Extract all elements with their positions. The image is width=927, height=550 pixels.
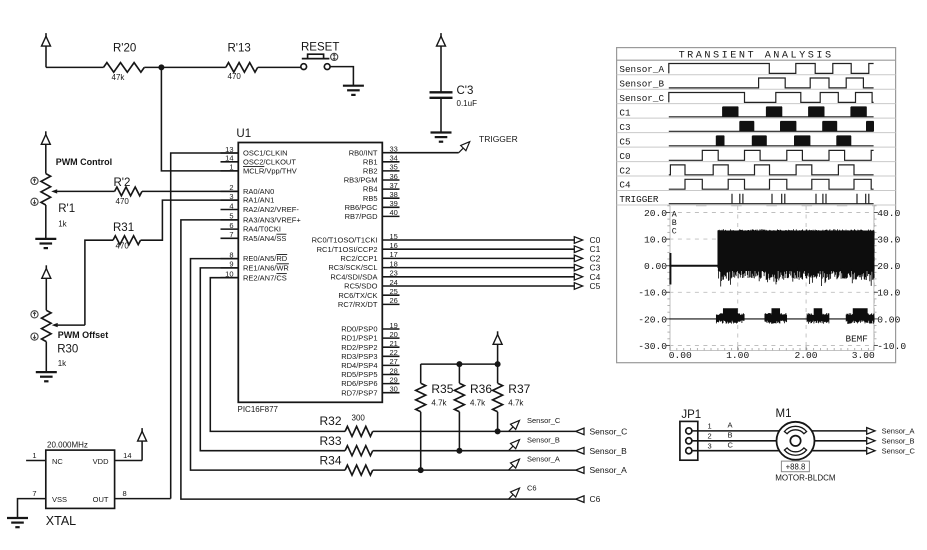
svg-text:RB0/INT: RB0/INT — [349, 148, 378, 157]
wire R30 wiper up to R31 — [85, 240, 113, 325]
pin 30 RD7/PSP7 — [382, 392, 399, 394]
power VCC arrow top-left — [45, 33, 47, 38]
pin 8 OUT wire — [115, 498, 171, 500]
svg-text:C6: C6 — [527, 484, 537, 493]
power VCC arrow above XTAL — [141, 428, 143, 433]
wire R30 to ground — [45, 342, 47, 373]
svg-text:C'3: C'3 — [457, 85, 474, 97]
svg-text:-10.0: -10.0 — [638, 288, 667, 299]
svg-text:U1: U1 — [236, 128, 251, 140]
power VCC arrow above C'3 — [440, 33, 442, 38]
resistor R'20 — [104, 63, 145, 73]
node terminal C3 — [574, 264, 582, 271]
svg-text:PWM Control: PWM Control — [56, 157, 112, 167]
pin 10 RE2/AN7/CS — [221, 277, 239, 279]
pin 39 RB6/PGC — [382, 206, 399, 208]
node terminal C5 — [574, 283, 582, 290]
transient analysis panel frame — [617, 48, 896, 363]
svg-text:RD4/PSP4: RD4/PSP4 — [341, 361, 377, 370]
svg-text:1: 1 — [229, 163, 233, 172]
svg-text:BEMF: BEMF — [846, 334, 868, 345]
svg-text:16: 16 — [390, 241, 398, 250]
svg-text:7: 7 — [32, 489, 36, 498]
pin 40 RB7/PGD — [382, 215, 399, 217]
motor M1 MOTOR-BLDCM — [777, 422, 815, 460]
potentiometer R'1 (PWM Control) — [41, 174, 51, 205]
pin 14 VDD wire to VCC — [115, 460, 143, 462]
resistor R37 — [497, 364, 499, 383]
terminal Sensor_A right side — [867, 428, 875, 435]
wire R32 to terminal Sensor_C — [373, 430, 576, 432]
trace TRIGGER waveform (spikes) — [669, 194, 874, 204]
analog noisy PWM band — [718, 231, 875, 272]
svg-text:RA4/T0CKI: RA4/T0CKI — [243, 225, 281, 234]
svg-text:R'1: R'1 — [58, 203, 75, 215]
wire RC4 to terminal C4 — [400, 276, 575, 278]
wire R'20 to R'13 — [144, 66, 226, 68]
svg-text:Sensor_B: Sensor_B — [619, 78, 664, 89]
pin 27 RD4/PSP4 — [382, 364, 399, 366]
svg-text:23: 23 — [390, 269, 398, 278]
svg-text:6: 6 — [229, 221, 233, 230]
overline CS — [276, 273, 286, 275]
svg-text:40.0: 40.0 — [877, 208, 900, 219]
svg-text:Sensor_A: Sensor_A — [619, 64, 664, 75]
svg-text:RC3/SCK/SCL: RC3/SCK/SCL — [328, 263, 377, 272]
wire RC3 to terminal C3 — [400, 267, 575, 269]
svg-text:14: 14 — [225, 154, 233, 163]
svg-text:10.0: 10.0 — [644, 235, 667, 246]
pin 26 RC7/RX/DT — [382, 303, 399, 305]
wire RC1 to terminal C1 — [400, 248, 575, 250]
svg-text:OSC2/CLKOUT: OSC2/CLKOUT — [243, 157, 296, 166]
svg-text:A: A — [728, 421, 733, 430]
analog axis frame and tick marks — [669, 206, 671, 351]
terminal Sensor_C left-pointing — [576, 428, 584, 435]
trace C1 waveform (pwm bursts) — [669, 116, 874, 118]
svg-text:10.0: 10.0 — [877, 288, 900, 299]
svg-text:22: 22 — [390, 348, 398, 357]
svg-text:Sensor_C: Sensor_C — [590, 427, 628, 437]
node MCLR junction — [158, 64, 164, 70]
ground below R'1 — [35, 238, 56, 240]
svg-text:RB5: RB5 — [363, 194, 378, 203]
svg-text:C: C — [728, 441, 734, 450]
connector JP1 — [680, 421, 698, 460]
svg-text:-20.0: -20.0 — [638, 314, 667, 325]
pin 3 RA1/AN1 — [221, 199, 239, 201]
svg-text:MOTOR-BLDCM: MOTOR-BLDCM — [775, 474, 836, 483]
pin 1 JP1 — [686, 428, 692, 434]
svg-text:RB6/PGC: RB6/PGC — [345, 203, 379, 212]
svg-text:40: 40 — [390, 208, 398, 217]
svg-text:39: 39 — [390, 199, 398, 208]
pin 35 RB2 — [382, 170, 399, 172]
svg-text:20: 20 — [390, 330, 398, 339]
wire RA3 down to C6 terminal — [181, 220, 576, 499]
terminal Sensor_C right side — [867, 447, 875, 454]
svg-text:2: 2 — [229, 183, 233, 192]
wire R'1 to ground — [45, 205, 47, 239]
svg-text:35: 35 — [390, 163, 398, 172]
wire RC0 to terminal C0 — [400, 239, 575, 241]
svg-text:RC6/TX/CK: RC6/TX/CK — [338, 291, 377, 300]
wire JP1 A to motor/terminal — [692, 430, 867, 432]
pin 13 OSC1/CLKIN — [221, 152, 239, 154]
trace Sensor_A waveform — [669, 64, 874, 74]
R30 wiper arrow — [52, 323, 58, 327]
pin 37 RB4 — [382, 188, 399, 190]
node terminal C0 — [574, 237, 582, 244]
pin 38 RB5 — [382, 197, 399, 199]
trace C3 waveform (pwm bursts) — [669, 130, 874, 132]
svg-text:470: 470 — [116, 197, 130, 206]
ground below R30 — [36, 371, 57, 373]
svg-text:Sensor_B: Sensor_B — [590, 446, 628, 456]
wire RE2 down to R32 (Sensor_C net) — [210, 278, 345, 432]
svg-text:3: 3 — [229, 192, 233, 201]
trace C0 waveform — [669, 150, 874, 160]
svg-text:1k: 1k — [58, 359, 67, 368]
svg-text:C0: C0 — [619, 151, 630, 162]
terminal C6 left-pointing — [576, 496, 584, 503]
ground below RESET — [343, 85, 364, 87]
wire R31 to pin RA1 — [141, 200, 239, 240]
svg-text:Sensor_C: Sensor_C — [527, 416, 561, 425]
svg-text:C6: C6 — [590, 494, 601, 504]
svg-text:RB7/PGD: RB7/PGD — [345, 212, 379, 221]
svg-text:MCLR/Vpp/THV: MCLR/Vpp/THV — [243, 167, 297, 176]
pin 2 JP1 — [686, 438, 692, 444]
pin 25 RC6/TX/CK — [382, 294, 399, 296]
pin 7 VSS wire to ground — [18, 499, 46, 518]
wire C'3 to ground — [440, 98, 442, 133]
svg-text:R36: R36 — [470, 382, 492, 396]
node terminal C2 — [574, 255, 582, 262]
svg-text:M1: M1 — [776, 408, 792, 420]
svg-text:RA1/AN1: RA1/AN1 — [243, 196, 274, 205]
pin 20 RD1/PSP1 — [382, 337, 399, 339]
svg-text:OSC1/CLKIN: OSC1/CLKIN — [243, 149, 288, 158]
Sensor_A flag — [509, 466, 514, 471]
overline RD — [276, 254, 287, 256]
pin 5 RA3/AN3/VREF+ — [221, 219, 239, 221]
wire MCLR net: junction down to pin 1 — [161, 67, 238, 170]
svg-text:18: 18 — [390, 259, 398, 268]
trace Sensor_C waveform — [669, 93, 874, 103]
pin 18 RC3/SCK/SCL — [382, 267, 399, 269]
C6 flag — [509, 495, 514, 500]
svg-text:1k: 1k — [58, 220, 67, 229]
svg-text:RD0/PSP0: RD0/PSP0 — [341, 325, 377, 334]
svg-text:Sensor_B: Sensor_B — [527, 435, 560, 444]
resistor R32 — [345, 426, 373, 436]
pin 8 RE0/AN5/RD — [221, 258, 239, 260]
svg-text:20.0: 20.0 — [877, 261, 900, 272]
terminal Sensor_B right side — [867, 438, 875, 445]
wire RC5 to terminal C5 — [400, 285, 575, 287]
node junction R36/Sensor_B — [456, 448, 462, 454]
svg-text:R32: R32 — [320, 414, 342, 428]
pin 34 RB1 — [382, 161, 399, 163]
svg-text:R31: R31 — [113, 222, 134, 234]
svg-text:RE0/AN5/RD: RE0/AN5/RD — [243, 254, 288, 263]
resistor R34 — [345, 465, 373, 475]
svg-text:RESET: RESET — [301, 42, 339, 54]
svg-text:30: 30 — [390, 385, 398, 394]
wire VCC to R'20 — [46, 66, 104, 68]
op-amp U1 PIC16F877 chip body — [238, 143, 382, 403]
analog grid dashed lines — [669, 212, 874, 214]
motor speed display +88.8 — [781, 461, 809, 472]
svg-text:17: 17 — [390, 250, 398, 259]
svg-text:R'13: R'13 — [228, 43, 251, 55]
svg-text:28: 28 — [390, 366, 398, 375]
svg-text:VDD: VDD — [93, 457, 109, 466]
svg-text:13: 13 — [225, 145, 233, 154]
svg-text:R35: R35 — [431, 382, 453, 396]
ground below C'3 — [431, 131, 452, 133]
pin 23 RC4/SDI/SDA — [382, 276, 399, 278]
R'1 wiper arrow — [51, 189, 57, 193]
svg-text:25: 25 — [390, 287, 398, 296]
svg-text:B: B — [728, 431, 733, 440]
svg-text:C4: C4 — [619, 180, 631, 191]
svg-text:OUT: OUT — [93, 495, 109, 504]
svg-text:29: 29 — [390, 375, 398, 384]
svg-text:R30: R30 — [57, 344, 78, 356]
resistor R'13 — [226, 63, 258, 73]
wire JP1 B to motor/terminal — [692, 440, 867, 442]
pin 33 RB0/INT — [382, 152, 399, 154]
svg-text:NC: NC — [52, 457, 63, 466]
pin 6 RA4/T0CKI — [221, 228, 239, 230]
pin 29 RD6/PSP6 — [382, 383, 399, 385]
resistor R33 — [345, 446, 373, 456]
svg-text:36: 36 — [390, 172, 398, 181]
svg-text:Sensor_C: Sensor_C — [882, 447, 916, 456]
pin 14 OSC2/CLKOUT — [221, 161, 239, 163]
node rail/R36 — [456, 361, 462, 367]
svg-text:RC0/T1OSO/T1CKI: RC0/T1OSO/T1CKI — [312, 236, 378, 245]
svg-text:20.000MHz: 20.000MHz — [47, 441, 88, 450]
svg-text:470: 470 — [228, 72, 242, 81]
svg-text:8: 8 — [123, 489, 127, 498]
resistor R31 — [113, 236, 141, 245]
pin 21 RD2/PSP2 — [382, 346, 399, 348]
svg-text:4: 4 — [229, 201, 233, 210]
overline WR — [276, 263, 289, 265]
svg-text:3.00: 3.00 — [852, 350, 875, 361]
Sensor_C flag — [509, 427, 514, 432]
ground below XTAL VSS — [7, 517, 28, 519]
R30 terminal markers — [31, 311, 38, 318]
svg-text:C5: C5 — [590, 281, 601, 291]
pin 28 RD5/PSP5 — [382, 374, 399, 376]
svg-text:Sensor_A: Sensor_A — [590, 465, 628, 475]
pin 2 RA0/AN0 — [221, 190, 239, 192]
svg-text:-30.0: -30.0 — [638, 341, 667, 352]
svg-text:TRIGGER: TRIGGER — [479, 134, 518, 144]
svg-text:4.7k: 4.7k — [508, 399, 524, 408]
svg-text:R'20: R'20 — [113, 43, 136, 55]
wire RC2 to terminal C2 — [400, 257, 575, 259]
svg-text:RA3/AN3/VREF+: RA3/AN3/VREF+ — [243, 216, 301, 225]
svg-text:RC1/T1OSI/CCP2: RC1/T1OSI/CCP2 — [317, 245, 378, 254]
svg-text:PWM Offset: PWM Offset — [58, 330, 109, 340]
svg-text:0.1uF: 0.1uF — [457, 99, 478, 108]
pin 1 MCLR/Vpp/THV — [221, 170, 239, 172]
svg-text:RB4: RB4 — [363, 185, 378, 194]
pin 19 RD0/PSP0 — [382, 328, 399, 330]
wire R'2 to pin RA0 — [142, 190, 238, 192]
svg-text:RD5/PSP5: RD5/PSP5 — [341, 370, 377, 379]
svg-text:19: 19 — [390, 321, 398, 330]
svg-text:XTAL: XTAL — [46, 514, 76, 528]
svg-text:Sensor_C: Sensor_C — [619, 93, 664, 104]
svg-text:VSS: VSS — [52, 495, 67, 504]
pin 3 JP1 — [686, 448, 692, 454]
pin 22 RD3/PSP3 — [382, 355, 399, 357]
power VCC arrow above R37 — [497, 331, 499, 336]
pin 17 RC2/CCP1 — [382, 257, 399, 259]
svg-text:RD1/PSP1: RD1/PSP1 — [341, 334, 377, 343]
Sensor_B flag — [509, 446, 514, 451]
capacitor C'3 — [430, 91, 453, 93]
overline MCLR — [243, 166, 264, 168]
svg-text:R'2: R'2 — [114, 177, 131, 189]
svg-text:27: 27 — [390, 357, 398, 366]
oscillator XTAL — [46, 450, 115, 508]
wire R34 to terminal Sensor_A — [373, 469, 576, 471]
svg-text:14: 14 — [123, 451, 131, 460]
svg-text:4.7k: 4.7k — [431, 399, 447, 408]
wire RE1 down to R33 (Sensor_B net) — [200, 268, 345, 451]
node TRIGGER flag — [459, 148, 464, 153]
overline SS — [276, 233, 286, 235]
svg-text:0.00: 0.00 — [644, 261, 667, 272]
svg-text:RB2: RB2 — [363, 167, 378, 176]
node junction R37/Sensor_C — [495, 428, 501, 434]
svg-text:Sensor_A: Sensor_A — [527, 455, 560, 464]
analog BEMF zero flat segment — [669, 265, 718, 267]
svg-text:0.00: 0.00 — [877, 314, 900, 325]
svg-text:C2: C2 — [619, 165, 630, 176]
wire RE0 down to R34 (Sensor_A net) — [191, 259, 346, 471]
svg-text:RB1: RB1 — [363, 157, 378, 166]
svg-text:24: 24 — [390, 278, 398, 287]
wire R33 to terminal Sensor_B — [373, 450, 576, 452]
svg-text:RD7/PSP7: RD7/PSP7 — [341, 388, 377, 397]
svg-text:1: 1 — [32, 451, 36, 460]
svg-text:30.0: 30.0 — [877, 235, 900, 246]
analog current trace baseline — [669, 318, 874, 320]
potentiometer R30 (PWM Offset) — [42, 310, 52, 341]
pin 15 RC0/T1OSO/T1CKI — [382, 239, 399, 241]
wire RB0 to TRIGGER flag — [400, 152, 459, 154]
R'1 terminal markers — [31, 177, 38, 184]
svg-text:21: 21 — [390, 339, 398, 348]
svg-text:15: 15 — [390, 232, 398, 241]
terminal Sensor_B left-pointing — [576, 447, 584, 454]
svg-text:33: 33 — [390, 145, 398, 154]
svg-text:RC4/SDI/SDA: RC4/SDI/SDA — [330, 272, 377, 281]
trace C5 waveform (pwm bursts) — [669, 145, 874, 147]
svg-text:34: 34 — [390, 154, 398, 163]
node terminal C1 — [574, 246, 582, 253]
wire XTAL OUT up to OSC1 pin 13 — [171, 153, 239, 499]
svg-text:Sensor_A: Sensor_A — [882, 427, 915, 436]
svg-text:26: 26 — [390, 296, 398, 305]
svg-text:C1: C1 — [619, 107, 631, 118]
wire RESET to ground — [330, 67, 353, 86]
node junction R35/Sensor_A — [418, 467, 424, 473]
svg-text:2: 2 — [708, 432, 712, 441]
analog current bursts — [716, 308, 874, 324]
analog initial spike — [669, 253, 671, 285]
trace C2 waveform — [669, 165, 874, 175]
svg-text:4.7k: 4.7k — [470, 399, 486, 408]
svg-text:1: 1 — [708, 422, 712, 431]
pin 7 RA5/AN4/SS — [221, 237, 239, 239]
svg-text:R34: R34 — [320, 453, 342, 467]
svg-text:C: C — [672, 228, 677, 237]
svg-text:C5: C5 — [619, 136, 630, 147]
resistor R'2 — [115, 187, 142, 196]
svg-text:20.0: 20.0 — [644, 208, 667, 219]
svg-text:RC7/RX/DT: RC7/RX/DT — [338, 300, 378, 309]
pin 1 NC stub — [26, 460, 46, 462]
terminal Sensor_A left-pointing — [576, 467, 584, 474]
svg-text:38: 38 — [390, 190, 398, 199]
resistor R35 — [420, 364, 422, 383]
svg-text:R33: R33 — [320, 434, 342, 448]
trace C4 waveform — [669, 179, 874, 189]
svg-text:470: 470 — [116, 242, 130, 251]
svg-text:47k: 47k — [112, 73, 126, 82]
svg-text:JP1: JP1 — [681, 409, 701, 421]
svg-text:RD3/PSP3: RD3/PSP3 — [341, 352, 377, 361]
pin 16 RC1/T1OSI/CCP2 — [382, 248, 399, 250]
svg-text:RC2/CCP1: RC2/CCP1 — [340, 254, 377, 263]
svg-text:1.00: 1.00 — [726, 350, 749, 361]
trace Sensor_B waveform — [669, 78, 874, 88]
svg-text:37: 37 — [390, 181, 398, 190]
power VCC arrow above R'1 — [45, 131, 47, 136]
svg-text:7: 7 — [229, 230, 233, 239]
svg-text:+88.8: +88.8 — [786, 462, 806, 471]
svg-text:Sensor_B: Sensor_B — [882, 437, 915, 446]
svg-text:PIC16F877: PIC16F877 — [238, 405, 279, 414]
svg-text:TRIGGER: TRIGGER — [619, 194, 658, 205]
node terminal C4 — [574, 274, 582, 281]
svg-text:0.00: 0.00 — [669, 350, 692, 361]
svg-text:RC5/SDO: RC5/SDO — [344, 282, 378, 291]
svg-text:C3: C3 — [619, 122, 630, 133]
svg-text:RA2/AN2/VREF-: RA2/AN2/VREF- — [243, 205, 299, 214]
wire JP1 C to motor/terminal — [692, 450, 867, 452]
svg-text:RA5/AN4/SS: RA5/AN4/SS — [243, 234, 286, 243]
svg-text:-10.0: -10.0 — [877, 341, 906, 352]
pin 9 RE1/AN6/WR — [221, 267, 239, 269]
pin 4 RA2/AN2/VREF- — [221, 209, 239, 211]
svg-text:RE1/AN6/WR: RE1/AN6/WR — [243, 264, 289, 273]
svg-text:RA0/AN0: RA0/AN0 — [243, 187, 274, 196]
svg-text:RD2/PSP2: RD2/PSP2 — [341, 343, 377, 352]
svg-text:RD6/PSP6: RD6/PSP6 — [341, 379, 377, 388]
svg-text:2.00: 2.00 — [794, 350, 817, 361]
svg-text:TRANSIENT ANALYSIS: TRANSIENT ANALYSIS — [679, 50, 834, 61]
